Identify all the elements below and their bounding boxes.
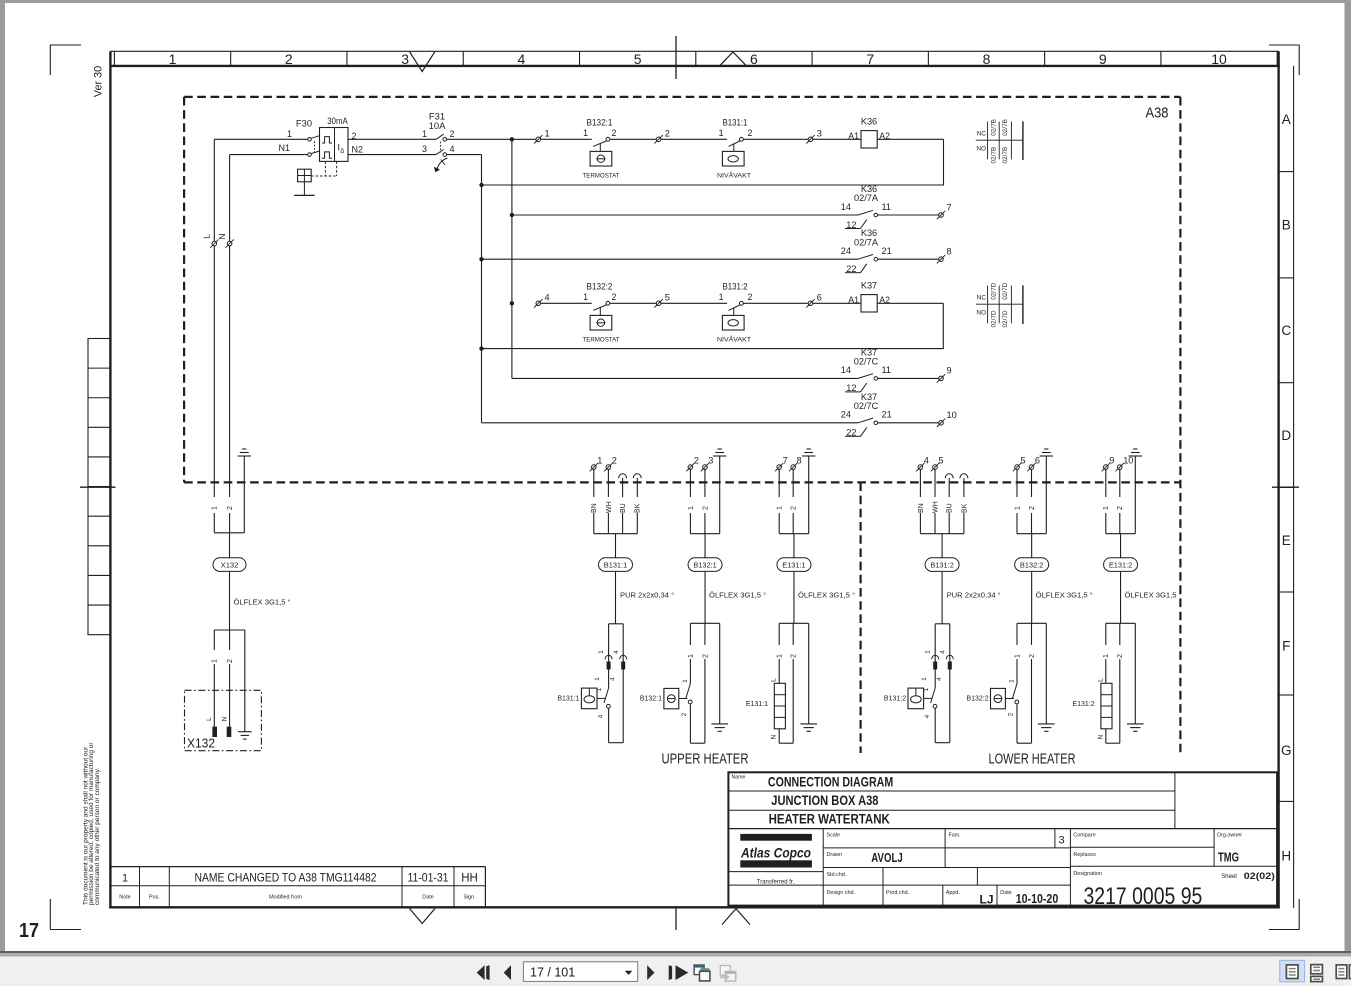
earth top B132:2 bbox=[1040, 449, 1053, 534]
toolbar bbox=[0, 957, 1351, 986]
svg-text:2: 2 bbox=[1029, 506, 1036, 510]
svg-text:1: 1 bbox=[583, 292, 588, 302]
wire F31 to L bus bbox=[447, 138, 536, 140]
terminal 5 bbox=[931, 455, 944, 471]
terminal N of X132 bbox=[217, 233, 234, 247]
svg-text:L: L bbox=[771, 678, 778, 682]
property disclaimer text bbox=[83, 742, 101, 905]
svg-text:LOWER HEATER: LOWER HEATER bbox=[989, 752, 1076, 768]
cable tag E131:2 bbox=[1104, 558, 1138, 572]
wire X132-2 bbox=[226, 630, 234, 727]
svg-text:4: 4 bbox=[517, 51, 525, 67]
svg-text:24: 24 bbox=[841, 410, 851, 420]
wires B132:1 bbox=[686, 469, 709, 533]
breaker F31 bbox=[422, 111, 455, 172]
svg-text:2: 2 bbox=[748, 292, 753, 302]
svg-text:X132: X132 bbox=[221, 561, 239, 570]
svg-text:Name: Name bbox=[732, 775, 746, 781]
terminal 10 bbox=[1116, 455, 1134, 471]
svg-text:6: 6 bbox=[750, 51, 758, 67]
cable split X132 bbox=[214, 629, 245, 631]
svg-text:Drawn: Drawn bbox=[827, 852, 843, 858]
wire N vertical bbox=[229, 155, 231, 533]
cable gather B132:1 bbox=[690, 533, 719, 535]
cable B131:1 bbox=[615, 534, 617, 558]
relay coil K37 bbox=[848, 280, 890, 312]
svg-text:2: 2 bbox=[791, 654, 798, 658]
wire labels X132 upper bbox=[210, 497, 234, 513]
svg-text:7: 7 bbox=[866, 51, 874, 67]
svg-text:4: 4 bbox=[936, 677, 943, 681]
cable gather E131:1 bbox=[779, 533, 809, 535]
svg-text:2: 2 bbox=[702, 654, 709, 658]
terminal 7 bbox=[937, 202, 952, 219]
terminal 2 bbox=[604, 455, 617, 471]
earth top B132:1 bbox=[713, 449, 726, 534]
svg-text:3: 3 bbox=[401, 51, 409, 67]
connector B132:2 bbox=[1013, 623, 1046, 743]
terminal 7 bbox=[775, 455, 788, 471]
svg-text:4: 4 bbox=[940, 650, 947, 654]
svg-text:2: 2 bbox=[1029, 654, 1036, 658]
relay coil K36 bbox=[848, 116, 890, 148]
plug X132 dash-dot box bbox=[185, 690, 262, 750]
svg-text:10: 10 bbox=[1211, 51, 1227, 67]
terminal 6 bbox=[806, 292, 822, 307]
svg-text:communicated to any other pers: communicated to any other person or comp… bbox=[94, 768, 101, 905]
svg-text:E131:2: E131:2 bbox=[1072, 701, 1094, 708]
svg-text:4: 4 bbox=[450, 144, 455, 154]
svg-text:K37: K37 bbox=[861, 280, 877, 290]
revision mark caret bottom bbox=[722, 909, 750, 925]
svg-text:5: 5 bbox=[1020, 455, 1025, 465]
svg-text:ÖLFLEX 3G1,5 °: ÖLFLEX 3G1,5 ° bbox=[234, 598, 291, 607]
svg-text:2: 2 bbox=[665, 128, 670, 138]
svg-text:E131:1: E131:1 bbox=[746, 701, 768, 708]
svg-text:1: 1 bbox=[719, 292, 724, 302]
hook ends cable B131:2 bbox=[945, 474, 968, 479]
earth wire E131:2 bbox=[1127, 623, 1144, 731]
earth top E131:2 bbox=[1129, 449, 1142, 534]
cable X132 lower bbox=[229, 571, 231, 630]
connector B132:1 bbox=[686, 623, 719, 743]
pin labels 1 4 bbox=[925, 650, 947, 654]
svg-text:ÖLFLEX 3G1,5 °: ÖLFLEX 3G1,5 ° bbox=[1125, 590, 1182, 599]
svg-text:BU: BU bbox=[620, 503, 627, 513]
svg-text:8: 8 bbox=[797, 455, 802, 465]
svg-text:B131:1: B131:1 bbox=[557, 695, 579, 702]
svg-text:Note: Note bbox=[119, 894, 130, 900]
terminal 3 bbox=[806, 128, 822, 143]
probe body B131:2 bbox=[935, 624, 950, 743]
svg-text:1: 1 bbox=[545, 128, 550, 138]
earth in X132 plug bbox=[238, 731, 252, 733]
RCD F30 bbox=[278, 115, 363, 161]
svg-text:5: 5 bbox=[634, 51, 642, 67]
svg-text:N: N bbox=[221, 716, 228, 721]
svg-text:B131:2: B131:2 bbox=[723, 281, 748, 291]
svg-text:A2: A2 bbox=[879, 131, 890, 141]
terminal 1 bbox=[534, 128, 550, 143]
svg-text:1: 1 bbox=[688, 654, 695, 658]
svg-text:02/7D: 02/7D bbox=[991, 282, 998, 299]
svg-text:E131:1: E131:1 bbox=[782, 560, 805, 569]
row letters A-H bbox=[1279, 112, 1294, 864]
svg-text:1: 1 bbox=[921, 677, 928, 681]
svg-text:1: 1 bbox=[598, 650, 605, 654]
wires E131:2 bbox=[1102, 469, 1124, 533]
cable wires B131:1 bbox=[594, 469, 638, 533]
wire L entry bbox=[214, 138, 307, 140]
svg-text:10A: 10A bbox=[429, 120, 446, 131]
svg-text:1: 1 bbox=[1103, 654, 1110, 658]
svg-text:1: 1 bbox=[422, 129, 427, 139]
svg-text:G: G bbox=[1281, 743, 1292, 758]
svg-text:11-01-31: 11-01-31 bbox=[408, 871, 449, 885]
svg-text:BN: BN bbox=[918, 503, 925, 513]
svg-text:1: 1 bbox=[287, 129, 292, 139]
row1 return wire to N bus bbox=[482, 139, 944, 185]
revision mark triangle above ruler at 6 bbox=[720, 52, 746, 65]
cable tag B131:1 bbox=[599, 558, 633, 572]
svg-text:02/7A: 02/7A bbox=[854, 193, 879, 203]
svg-text:1: 1 bbox=[1014, 654, 1021, 658]
svg-text:1: 1 bbox=[925, 650, 932, 654]
bus N vertical bbox=[481, 155, 483, 423]
svg-text:Prod.chd.: Prod.chd. bbox=[886, 890, 909, 896]
svg-text:K36: K36 bbox=[861, 116, 877, 126]
svg-text:3: 3 bbox=[708, 455, 713, 465]
cable gather B131:2 bbox=[920, 533, 964, 535]
socket hooks and crimp pins bbox=[594, 655, 627, 681]
left margin scale column bbox=[88, 339, 110, 635]
svg-text:5: 5 bbox=[665, 292, 670, 302]
svg-text:L: L bbox=[202, 234, 212, 239]
row3 wire bbox=[482, 258, 859, 260]
svg-text:TERMOSTAT: TERMOSTAT bbox=[583, 172, 620, 179]
revision mark triangle bottom date bbox=[410, 909, 435, 924]
terminal 4 bbox=[916, 455, 929, 471]
svg-text:E131:2: E131:2 bbox=[1109, 560, 1132, 569]
svg-text:3: 3 bbox=[1058, 835, 1064, 847]
terminal 3 bbox=[701, 455, 714, 471]
svg-text:L: L bbox=[206, 717, 213, 721]
earth top E131:1 bbox=[802, 449, 815, 534]
row2 wire bbox=[512, 214, 858, 216]
row1 wire segments bbox=[541, 138, 944, 140]
level switch contact B131:2 bbox=[717, 281, 753, 343]
svg-text:1: 1 bbox=[682, 679, 689, 683]
svg-text:B131:2: B131:2 bbox=[930, 560, 953, 569]
cable tag B132:2 bbox=[1015, 558, 1049, 572]
svg-text:21: 21 bbox=[882, 246, 892, 256]
svg-text:1: 1 bbox=[212, 506, 219, 510]
svg-text:NC: NC bbox=[977, 294, 987, 301]
wire F31 to N bus bbox=[447, 154, 482, 156]
svg-text:B132:1: B132:1 bbox=[693, 560, 716, 569]
thermostat contact B132:1 bbox=[583, 117, 620, 179]
svg-text:02/7D: 02/7D bbox=[1002, 282, 1009, 299]
ground below test button bbox=[294, 182, 314, 196]
svg-text:8: 8 bbox=[947, 247, 952, 257]
probe body B131:1 bbox=[609, 624, 624, 743]
wire X132-PE bbox=[244, 630, 246, 732]
svg-text:B131:1: B131:1 bbox=[723, 117, 748, 127]
svg-text:8: 8 bbox=[983, 51, 991, 67]
row6 wire bbox=[482, 422, 859, 424]
svg-text:2: 2 bbox=[681, 712, 688, 716]
cable tag X132 bbox=[213, 558, 246, 572]
cable gather B132:2 bbox=[1017, 533, 1046, 535]
svg-text:10: 10 bbox=[947, 410, 957, 420]
svg-text:Atlas Copco: Atlas Copco bbox=[740, 846, 811, 861]
svg-text:N: N bbox=[771, 734, 778, 739]
svg-text:2: 2 bbox=[694, 455, 699, 465]
svg-text:1: 1 bbox=[594, 677, 601, 681]
row5 wire bbox=[512, 377, 858, 379]
svg-text:1: 1 bbox=[1014, 506, 1021, 510]
svg-text:10-10-20: 10-10-20 bbox=[1016, 891, 1059, 906]
svg-text:X132: X132 bbox=[187, 737, 215, 751]
svg-text:A2: A2 bbox=[879, 295, 890, 305]
svg-text:02/7D: 02/7D bbox=[991, 310, 998, 327]
svg-text:4: 4 bbox=[924, 455, 929, 465]
thermostat contact B132:2 bbox=[583, 281, 620, 343]
svg-text:3217 0005 95: 3217 0005 95 bbox=[1084, 883, 1203, 910]
svg-text:BK: BK bbox=[635, 503, 642, 513]
svg-text:NAME CHANGED TO A38 TMG114482: NAME CHANGED TO A38 TMG114482 bbox=[195, 871, 377, 885]
toolbar controls bbox=[477, 962, 689, 982]
svg-text:2: 2 bbox=[227, 506, 234, 510]
svg-text:21: 21 bbox=[882, 410, 892, 420]
revision mark triangle top bbox=[410, 52, 435, 72]
svg-text:Compare: Compare bbox=[1073, 833, 1095, 839]
svg-text:ÖLFLEX 3G1,5 °: ÖLFLEX 3G1,5 ° bbox=[798, 590, 855, 599]
svg-text:Appd.: Appd. bbox=[946, 890, 960, 896]
Atlas Copco logo bbox=[740, 834, 812, 886]
svg-text:02/7C: 02/7C bbox=[854, 401, 879, 411]
thermostat switch B132:1 bbox=[640, 679, 692, 717]
terminal 8 bbox=[789, 455, 802, 471]
svg-text:B132:2: B132:2 bbox=[587, 281, 613, 291]
connector E131:2 bbox=[1102, 623, 1136, 743]
pin N of X132 plug bbox=[221, 716, 231, 737]
svg-text:B132:1: B132:1 bbox=[587, 117, 613, 127]
svg-text:1: 1 bbox=[777, 506, 784, 510]
terminal 1 bbox=[590, 455, 603, 471]
svg-text:A1: A1 bbox=[848, 131, 859, 141]
svg-text:Modified from: Modified from bbox=[269, 894, 302, 900]
earth PE inside A38 for X132 bbox=[238, 449, 251, 533]
row6 wire to terminal 10 bbox=[878, 422, 939, 424]
wires E131:1 bbox=[775, 469, 797, 533]
page bottom shadow bbox=[0, 951, 1351, 953]
svg-text:UPPER HEATER: UPPER HEATER bbox=[662, 752, 749, 768]
cable gather E131:2 bbox=[1106, 533, 1136, 535]
svg-text:F: F bbox=[1282, 638, 1290, 653]
svg-text:B131:2: B131:2 bbox=[884, 695, 906, 702]
svg-text:F30: F30 bbox=[296, 118, 312, 129]
svg-text:Fam.: Fam. bbox=[949, 833, 961, 839]
svg-text:4: 4 bbox=[924, 714, 931, 718]
svg-text:HH: HH bbox=[461, 873, 478, 885]
svg-text:2: 2 bbox=[227, 659, 234, 663]
wires B132:2 bbox=[1013, 469, 1036, 533]
svg-text:1: 1 bbox=[719, 128, 724, 138]
svg-text:Transferred fr.: Transferred fr. bbox=[757, 880, 795, 886]
svg-text:TMG: TMG bbox=[1218, 850, 1239, 865]
svg-text:BK: BK bbox=[961, 503, 968, 513]
svg-text:Scale: Scale bbox=[827, 833, 841, 839]
svg-text:WH: WH bbox=[606, 501, 613, 513]
title block texts bbox=[732, 775, 1275, 910]
pin L of X132 plug bbox=[206, 717, 217, 737]
svg-text:BN: BN bbox=[591, 503, 598, 513]
junction dots N bus bbox=[479, 183, 483, 187]
svg-text:H: H bbox=[1281, 848, 1291, 863]
svg-text:N: N bbox=[1097, 734, 1104, 739]
svg-text:Date: Date bbox=[422, 894, 433, 900]
svg-text:HEATER WATERTANK: HEATER WATERTANK bbox=[769, 812, 890, 827]
svg-text:E: E bbox=[1282, 533, 1291, 548]
wire F30 to F31 top bbox=[348, 138, 436, 140]
float switch B131:1 bbox=[557, 687, 610, 718]
svg-text:9: 9 bbox=[947, 366, 952, 376]
cable X132 bbox=[229, 533, 231, 558]
svg-text:B132:2: B132:2 bbox=[1020, 560, 1043, 569]
svg-text:A38: A38 bbox=[1146, 105, 1169, 122]
svg-text:Pos.: Pos. bbox=[149, 894, 160, 900]
terminal 9 bbox=[937, 366, 952, 383]
terminal 10 bbox=[937, 410, 957, 427]
svg-text:Designation: Designation bbox=[1073, 871, 1101, 877]
svg-text:B131:1: B131:1 bbox=[604, 560, 627, 569]
svg-text:02/7B: 02/7B bbox=[991, 147, 998, 164]
svg-text:A1: A1 bbox=[848, 295, 859, 305]
svg-text:2: 2 bbox=[612, 455, 617, 465]
cable tag B131:2 bbox=[925, 558, 959, 572]
wire N entry bbox=[230, 154, 308, 156]
terminal 8 bbox=[937, 247, 952, 264]
svg-text:TERMOSTAT: TERMOSTAT bbox=[583, 336, 620, 343]
svg-text:PUR 2x2x0,34 °: PUR 2x2x0,34 ° bbox=[947, 590, 1001, 599]
svg-text:02/7B: 02/7B bbox=[1002, 119, 1009, 136]
svg-text:1: 1 bbox=[688, 506, 695, 510]
svg-text:B: B bbox=[1282, 217, 1291, 232]
contact K37 24-21 bbox=[841, 392, 892, 438]
svg-text:5: 5 bbox=[938, 455, 943, 465]
svg-text:17 / 101: 17 / 101 bbox=[530, 966, 575, 980]
float switch B131:2 bbox=[884, 687, 937, 718]
row5 wire to terminal 9 bbox=[878, 377, 939, 379]
previous view icon bbox=[694, 965, 710, 981]
svg-text:3: 3 bbox=[817, 128, 822, 138]
svg-text:02/7B: 02/7B bbox=[1002, 147, 1009, 164]
cable wires B131:2 bbox=[920, 469, 964, 533]
svg-text:1: 1 bbox=[169, 51, 177, 67]
svg-text:B132:2: B132:2 bbox=[966, 695, 988, 702]
svg-text:6: 6 bbox=[817, 292, 822, 302]
svg-text:B132:1: B132:1 bbox=[640, 695, 662, 702]
svg-text:7: 7 bbox=[947, 202, 952, 212]
svg-text:02/7D: 02/7D bbox=[1002, 310, 1009, 327]
svg-text:JUNCTION BOX A38: JUNCTION BOX A38 bbox=[771, 793, 879, 808]
svg-text:1: 1 bbox=[597, 455, 602, 465]
svg-text:9: 9 bbox=[1099, 51, 1107, 67]
svg-text:A: A bbox=[1282, 112, 1291, 127]
svg-text:14: 14 bbox=[841, 365, 851, 375]
svg-text:NO: NO bbox=[976, 309, 986, 316]
svg-text:2: 2 bbox=[791, 506, 798, 510]
svg-text:ÖLFLEX 3G1,5 °: ÖLFLEX 3G1,5 ° bbox=[709, 590, 766, 599]
contact K36 14-11 bbox=[841, 184, 891, 230]
next view icon (disabled) bbox=[720, 966, 736, 982]
facing pages layout button bbox=[1336, 965, 1351, 979]
wire colour labels bbox=[590, 497, 642, 513]
svg-text:D: D bbox=[1281, 428, 1291, 443]
svg-text:LJ: LJ bbox=[979, 893, 993, 907]
svg-text:Org.owner: Org.owner bbox=[1217, 833, 1242, 839]
svg-text:Δ: Δ bbox=[340, 148, 344, 154]
svg-text:2: 2 bbox=[450, 129, 455, 139]
terminal 4 bbox=[534, 292, 550, 307]
svg-text:2: 2 bbox=[702, 506, 709, 510]
junction dots L bus bbox=[510, 137, 514, 141]
svg-text:AVOLJ: AVOLJ bbox=[871, 851, 903, 865]
heater element E131:2 bbox=[1072, 678, 1112, 740]
earth wire B132:1 bbox=[711, 623, 728, 731]
cable gather B131:1 bbox=[594, 533, 638, 535]
svg-text:17: 17 bbox=[19, 920, 39, 942]
terminal L of X132 bbox=[202, 234, 219, 248]
svg-text:NIVÅVAKT: NIVÅVAKT bbox=[717, 170, 751, 179]
terminal 5 bbox=[654, 292, 670, 307]
svg-text:Replaces: Replaces bbox=[1073, 852, 1096, 858]
svg-text:2: 2 bbox=[285, 51, 293, 67]
svg-text:Sheet: Sheet bbox=[1221, 874, 1237, 880]
svg-text:1: 1 bbox=[777, 654, 784, 658]
svg-text:NC: NC bbox=[977, 130, 987, 137]
svg-text:02/7B: 02/7B bbox=[991, 119, 998, 136]
svg-text:2: 2 bbox=[612, 128, 617, 138]
svg-text:10: 10 bbox=[1123, 455, 1133, 465]
terminal 2 bbox=[654, 128, 670, 143]
svg-text:BU: BU bbox=[947, 503, 954, 513]
terminal 6 bbox=[1027, 455, 1040, 471]
svg-text:1: 1 bbox=[212, 659, 219, 663]
row2 wire to terminal 7 bbox=[878, 214, 939, 216]
crossref table K37 bbox=[976, 282, 1023, 327]
svg-text:3: 3 bbox=[422, 144, 427, 154]
svg-text:Ver 30: Ver 30 bbox=[93, 66, 105, 97]
svg-text:4: 4 bbox=[613, 650, 620, 654]
border frame bbox=[109, 51, 1293, 908]
contact K37 14-11 bbox=[841, 347, 891, 393]
svg-text:1: 1 bbox=[583, 128, 588, 138]
svg-text:Sign.: Sign. bbox=[463, 894, 475, 900]
wire X132-1 bbox=[210, 630, 218, 727]
bus L vertical bbox=[511, 139, 513, 378]
svg-text:4: 4 bbox=[545, 292, 550, 302]
svg-text:02/7C: 02/7C bbox=[854, 357, 879, 367]
cable gather X132 bbox=[214, 532, 244, 534]
svg-text:NIVÅVAKT: NIVÅVAKT bbox=[717, 334, 751, 343]
terminal 9 bbox=[1102, 455, 1115, 471]
junction box A38 dashed enclosure bbox=[184, 97, 1180, 753]
svg-text:2: 2 bbox=[1117, 654, 1124, 658]
single page layout button (active) bbox=[1280, 960, 1305, 982]
wire colour labels bbox=[916, 497, 968, 513]
